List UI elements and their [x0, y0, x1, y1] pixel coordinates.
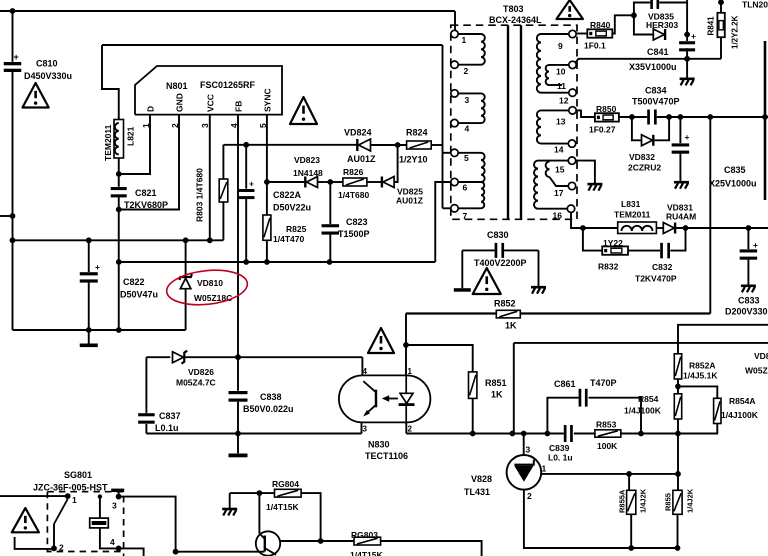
wire left rail lower — [12, 72, 14, 330]
svg-text:RG804: RG804 — [272, 479, 299, 489]
svg-text:3: 3 — [465, 95, 470, 105]
terminal pin 15 — [568, 157, 575, 164]
diode VD832 — [642, 135, 653, 146]
wire R852A-R854 — [677, 379, 679, 394]
node bus262 left — [116, 259, 122, 265]
capacitor C832 — [660, 243, 663, 259]
svg-text:9: 9 — [558, 41, 563, 51]
node edge line — [762, 114, 768, 120]
capacitor snubber top — [650, 0, 653, 9]
wire R803 top lead — [222, 145, 224, 179]
svg-text:TEM2011: TEM2011 — [103, 124, 113, 161]
wire L821 to C821 — [118, 158, 120, 187]
wire R825 to bus — [266, 240, 268, 262]
svg-text:+: + — [14, 52, 19, 62]
node C834 left — [629, 114, 635, 120]
svg-text:+: + — [691, 31, 696, 41]
capacitor C822A — [238, 189, 255, 192]
wire R841 bottom corner — [720, 37, 722, 59]
resistor R803 — [219, 179, 228, 202]
wire to R851 — [406, 345, 473, 372]
diode VD835 — [653, 29, 664, 40]
capacitor C821 — [111, 187, 127, 190]
wire VD831 right — [675, 227, 768, 229]
wire pin7 stub — [443, 207, 451, 209]
node VD825 branch — [395, 142, 401, 148]
wire rail x687 top — [686, 3, 688, 42]
svg-text:R825: R825 — [286, 224, 307, 234]
wire C839-R853 — [574, 433, 595, 435]
transformer core line 2 — [520, 25, 522, 219]
node base wire — [173, 549, 179, 555]
svg-text:VD823: VD823 — [294, 155, 320, 165]
terminal pin 5 — [451, 149, 458, 156]
svg-text:VD826: VD826 — [188, 367, 214, 377]
diode VD826 zener — [173, 352, 184, 363]
node coil pin3 wire — [98, 494, 102, 498]
diode VD823 — [304, 177, 306, 188]
node L821 bottom — [116, 171, 122, 177]
opto pin2 lead — [405, 422, 407, 433]
svg-text:2: 2 — [527, 491, 532, 501]
svg-text:T470P: T470P — [590, 378, 617, 388]
wire R854A top — [678, 386, 717, 398]
resistor R854 — [674, 394, 681, 419]
resistor R855 — [673, 490, 682, 514]
secondary winding 13-14 — [541, 109, 569, 111]
wire R852 bus — [406, 312, 497, 314]
svg-text:1/4J5.1K: 1/4J5.1K — [683, 371, 718, 381]
svg-text:1/4T15K: 1/4T15K — [266, 502, 299, 512]
wire pin4 FB long — [237, 115, 239, 358]
svg-text:3: 3 — [112, 501, 117, 511]
svg-text:T400V2200P: T400V2200P — [474, 258, 527, 268]
wire pin3 to base — [119, 497, 176, 552]
svg-text:T803: T803 — [503, 4, 524, 14]
wire RG804 right corner — [301, 493, 321, 541]
wire C821 down — [118, 197, 120, 330]
svg-text:C841: C841 — [647, 47, 669, 57]
svg-text:1Y22: 1Y22 — [603, 238, 623, 248]
transformer core line 1 — [507, 25, 509, 219]
terminal pin 14 — [568, 140, 575, 147]
wire SYNC to R825 — [266, 182, 268, 215]
svg-text:R852: R852 — [494, 299, 516, 309]
wire collector down — [258, 493, 260, 533]
wire R841 top — [720, 0, 722, 13]
fusible resistor R850 — [595, 113, 619, 121]
wire bus y59 — [576, 59, 721, 62]
wire pin3 VCC — [209, 115, 211, 241]
svg-text:1/4T470: 1/4T470 — [273, 234, 304, 244]
red circle annotation — [165, 267, 249, 309]
node SYNC VD823 tap — [264, 179, 270, 185]
svg-text:R824: R824 — [406, 128, 428, 138]
warning triangle 5 — [368, 328, 394, 353]
node bus330 — [116, 327, 122, 333]
svg-text:R841: R841 — [707, 16, 716, 36]
capacitor C830 — [462, 249, 494, 251]
relay coil — [90, 518, 109, 528]
opto LED — [405, 375, 407, 393]
svg-text:L0.1u: L0.1u — [155, 423, 179, 433]
node collector — [257, 490, 263, 496]
svg-text:D50V47u: D50V47u — [120, 290, 158, 300]
node rail-bus240 — [10, 237, 16, 243]
svg-text:13: 13 — [556, 117, 566, 127]
wire pin15 to ground — [576, 161, 595, 184]
svg-text:D50V22u: D50V22u — [273, 203, 311, 213]
primary winding 5-6 — [458, 152, 481, 154]
terminal pin 7 — [451, 205, 458, 212]
svg-text:4: 4 — [363, 367, 368, 376]
ground bar C830 — [454, 288, 471, 292]
svg-text:11: 11 — [557, 81, 566, 91]
relay switch blade — [54, 499, 68, 524]
svg-text:1: 1 — [462, 35, 467, 45]
warning triangle 6 — [12, 508, 39, 532]
svg-text:C834: C834 — [645, 86, 667, 96]
svg-text:D200V330u: D200V330u — [725, 307, 768, 317]
wire R832 to C832 — [628, 250, 660, 252]
wire drop to T803 pin1 — [454, 11, 456, 31]
warning triangle 3 — [557, 0, 583, 19]
wire R850 to C834 — [619, 116, 647, 118]
node R826 left — [327, 179, 333, 185]
svg-text:SG801: SG801 — [64, 470, 92, 480]
node C822 top — [86, 237, 92, 243]
wire corner to L821 — [102, 45, 119, 120]
svg-text:RU4AM: RU4AM — [666, 212, 696, 222]
wire C861 right branch — [589, 398, 641, 434]
svg-text:C832: C832 — [652, 262, 673, 272]
svg-text:C837: C837 — [159, 411, 181, 421]
svg-text:L821: L821 — [126, 126, 136, 146]
node VD835 anode — [631, 12, 637, 18]
svg-text:C830: C830 — [487, 230, 509, 240]
svg-text:FSC01265RF: FSC01265RF — [200, 80, 256, 90]
svg-text:M05Z4.7C: M05Z4.7C — [176, 378, 216, 388]
svg-text:100K: 100K — [597, 441, 618, 451]
capacitor C837 — [145, 357, 147, 413]
relay pin 4 — [116, 546, 122, 552]
wire R826 to VD825 — [367, 181, 382, 183]
svg-text:GND: GND — [175, 93, 185, 112]
wire node to RG803 — [321, 540, 354, 542]
wire fb bus — [473, 433, 564, 435]
wire pin2 to fb bus — [406, 433, 472, 435]
inductor L821 — [114, 120, 124, 159]
ground C841 — [680, 78, 695, 81]
fusible resistor R840 — [587, 29, 612, 37]
resistor R826 — [343, 178, 367, 186]
node C821 gnd — [116, 207, 122, 213]
svg-text:1: 1 — [542, 464, 547, 474]
node C841 bus59 — [684, 56, 690, 62]
resistor R855A — [627, 490, 636, 514]
ground C833 — [741, 284, 756, 287]
wire sense y324.8 — [678, 325, 768, 354]
resistor RG803 — [354, 537, 381, 545]
diode VD810 zener — [185, 240, 187, 277]
svg-text:4: 4 — [110, 537, 115, 547]
svg-text:1/2Y2.2K: 1/2Y2.2K — [731, 15, 740, 49]
svg-text:VD824: VD824 — [344, 128, 372, 138]
wire R852 to rail — [520, 312, 710, 314]
svg-text:2CZRU2: 2CZRU2 — [628, 163, 661, 173]
resistor RG804 — [275, 489, 302, 497]
capacitor C838 — [237, 357, 239, 391]
resistor R852A — [674, 354, 681, 379]
wire R855 leads — [677, 474, 679, 490]
svg-text:C838: C838 — [260, 392, 282, 402]
wire bus y262 — [119, 261, 436, 263]
svg-text:1/2Y10: 1/2Y10 — [399, 155, 428, 165]
wire TL431 anode — [524, 490, 678, 548]
node left rail top — [10, 8, 16, 14]
node C833 top — [746, 225, 752, 231]
svg-text:1/4T680: 1/4T680 — [338, 190, 369, 200]
svg-text:VD810: VD810 — [197, 278, 223, 288]
wire C861 branch — [547, 398, 578, 434]
resistor R852 — [496, 310, 520, 318]
svg-text:1F0.1: 1F0.1 — [584, 41, 606, 51]
svg-text:VCC: VCC — [206, 94, 216, 112]
svg-text:1: 1 — [72, 495, 77, 505]
wire VCC aux line y144.8 — [223, 144, 357, 146]
wire C830 left drop — [461, 250, 463, 288]
svg-text:T1500P: T1500P — [338, 229, 370, 239]
svg-text:R855: R855 — [664, 493, 673, 511]
node C861 left — [545, 431, 551, 437]
relay pin 3 — [116, 494, 122, 500]
wire relay pin1 feed — [0, 495, 68, 497]
wire pin4 down exit — [119, 548, 144, 556]
wire rail 25V — [709, 117, 711, 314]
svg-text:T2KV470P: T2KV470P — [635, 274, 677, 284]
svg-text:R853: R853 — [596, 420, 617, 430]
svg-text:1/4J2K: 1/4J2K — [686, 488, 695, 513]
node rail y216 — [10, 213, 16, 219]
wire R824 right — [431, 144, 442, 146]
transistor V8xx — [256, 531, 280, 555]
wire R854A bottom — [716, 424, 718, 434]
wire C834 right — [657, 116, 768, 118]
wire pin6 down to bus — [435, 182, 451, 262]
wire C830 right drop — [538, 250, 540, 287]
svg-text:12: 12 — [559, 96, 569, 106]
node rail25 top — [707, 114, 713, 120]
capacitor C834 — [647, 110, 650, 125]
svg-text:1/4J100K: 1/4J100K — [624, 406, 662, 416]
node C861 right — [638, 431, 644, 437]
node R855A bottom — [628, 545, 634, 551]
wire R851 bottom — [472, 398, 474, 433]
primary winding 1-2 — [458, 33, 481, 35]
svg-text:15: 15 — [555, 165, 565, 175]
svg-text:R855A: R855A — [618, 489, 627, 513]
svg-text:L831: L831 — [621, 199, 641, 209]
svg-text:3: 3 — [526, 445, 531, 455]
capacitor C833 — [747, 228, 749, 249]
svg-text:N801: N801 — [166, 81, 188, 91]
wire VD823 row — [267, 181, 305, 183]
svg-text:TECT1106: TECT1106 — [365, 451, 408, 461]
node RG803 left — [318, 538, 324, 544]
svg-text:B50V0.022u: B50V0.022u — [243, 404, 294, 414]
svg-text:R840: R840 — [590, 20, 611, 30]
wire C822A — [245, 145, 247, 189]
svg-text:C821: C821 — [135, 188, 157, 198]
svg-text:VD8: VD8 — [754, 351, 768, 361]
ground C830 right — [531, 286, 546, 289]
wire snubber cap right — [659, 0, 687, 3]
wire R854 to ref bus — [677, 434, 679, 474]
node VD835 cathode rail — [684, 32, 690, 38]
svg-text:+: + — [753, 240, 758, 250]
svg-text:R854A: R854A — [729, 396, 755, 406]
node C822A top — [243, 142, 249, 148]
wire coil top — [99, 497, 101, 518]
svg-text:TLN20: TLN20 — [742, 0, 768, 10]
warning triangle 2 — [290, 97, 317, 124]
svg-text:D: D — [146, 106, 156, 112]
terminal pin 3 — [451, 90, 458, 97]
svg-text:C861: C861 — [554, 379, 576, 389]
capacitor C861 — [579, 389, 582, 407]
wire VD835 anode lead — [634, 15, 654, 34]
svg-text:R850: R850 — [596, 104, 617, 114]
svg-text:1: 1 — [408, 367, 413, 376]
svg-text:HER303: HER303 — [646, 20, 678, 30]
wire primary left vertical — [442, 45, 444, 208]
ground C835 — [674, 181, 689, 184]
warning triangle 4 — [473, 268, 501, 294]
terminal pin 10 — [569, 61, 576, 68]
secondary winding 10-11 inner — [549, 64, 569, 66]
node R855A top — [626, 471, 632, 477]
wire sense link vertical — [513, 343, 515, 434]
wire VD826 to opto pin4 — [186, 356, 363, 358]
wire pin2 GND — [119, 115, 179, 210]
wire pin1 D to L821 — [119, 115, 150, 174]
wire VD825 up to node — [394, 145, 398, 182]
svg-text:C823: C823 — [346, 217, 368, 227]
svg-text:3: 3 — [200, 123, 210, 128]
resistor R825 — [263, 215, 271, 240]
wire R803 bottom lead — [222, 202, 224, 240]
resistor R824 — [407, 141, 432, 149]
node sense link — [510, 431, 516, 437]
wire C832 up to node — [670, 228, 685, 251]
svg-text:1K: 1K — [505, 321, 517, 331]
svg-text:TL431: TL431 — [464, 487, 490, 497]
node R841 top — [718, 0, 724, 5]
svg-text:16: 16 — [553, 211, 563, 221]
svg-text:+: + — [685, 132, 690, 142]
svg-text:C835: C835 — [724, 165, 746, 175]
svg-text:R852A: R852A — [689, 361, 715, 371]
wire pin2 left corner — [15, 537, 54, 549]
wire C822A down — [245, 198, 247, 262]
node C822A bus — [243, 259, 249, 265]
opto pin3 lead — [361, 422, 363, 433]
wire pin9 to R840 — [576, 33, 587, 35]
terminal pin 17 — [568, 182, 575, 189]
svg-text:1K: 1K — [491, 390, 503, 400]
wire R832 branch down — [583, 228, 602, 251]
node R852A bottom — [675, 384, 681, 390]
capacitor C823 — [329, 182, 331, 224]
wire left rail upper — [12, 11, 14, 62]
node C823 bus — [327, 259, 333, 265]
svg-text:TEM2011: TEM2011 — [614, 210, 651, 220]
diode VD824 — [356, 139, 358, 151]
svg-text:FB: FB — [234, 101, 244, 112]
svg-text:+: + — [95, 262, 100, 272]
svg-text:4: 4 — [465, 124, 470, 134]
inductor L831 — [618, 222, 657, 234]
svg-text:3: 3 — [363, 425, 368, 434]
svg-text:L0. 1u: L0. 1u — [548, 453, 573, 463]
node C838 bus — [235, 431, 241, 437]
wire bottom bus left — [146, 433, 361, 435]
terminal pin 4 — [451, 119, 458, 126]
node C822 bus330 — [86, 327, 92, 333]
wire L831 to VD831 — [656, 227, 663, 229]
svg-text:X25V1000u: X25V1000u — [709, 179, 757, 189]
ground bar under bus330 — [88, 330, 90, 344]
wire base — [176, 551, 265, 553]
wire VD823 to node — [318, 181, 331, 183]
svg-text:R851: R851 — [485, 378, 507, 388]
warning triangle 1 — [23, 83, 49, 108]
ground RG804 — [222, 508, 237, 511]
relay pin 1 — [65, 493, 71, 499]
node VD831 out — [683, 225, 689, 231]
capacitor C841 — [679, 41, 695, 44]
terminal pin 13 — [569, 107, 576, 114]
wire RG803 right exit — [381, 541, 482, 556]
secondary winding 17 inner — [546, 162, 550, 178]
wire pin5 stub — [443, 152, 451, 154]
svg-text:C839: C839 — [549, 443, 570, 453]
primary winding 6-7 — [481, 182, 484, 208]
svg-text:X35V1000u: X35V1000u — [629, 62, 677, 72]
svg-text:R832: R832 — [598, 262, 619, 272]
terminal pin 2 — [451, 61, 458, 68]
svg-text:1/4J100K: 1/4J100K — [721, 410, 759, 420]
opto pin4 lead — [361, 357, 363, 375]
node C835 top — [678, 114, 684, 120]
svg-text:D450V330u: D450V330u — [24, 71, 72, 81]
resistor R853 — [595, 430, 621, 437]
wire TL431 ref — [541, 473, 678, 475]
svg-text:6: 6 — [463, 183, 468, 193]
capacitor C822 — [88, 240, 90, 272]
svg-text:N830: N830 — [368, 440, 390, 450]
wire VD832 bypass left — [632, 117, 642, 140]
svg-text:AU01Z: AU01Z — [396, 196, 423, 206]
node TL431 cathode — [521, 431, 527, 437]
opto light arrow — [386, 398, 398, 400]
node FB C838 — [235, 354, 241, 360]
node R855 bottom — [675, 545, 681, 551]
svg-text:2: 2 — [59, 543, 64, 553]
capacitor C810 — [4, 62, 22, 65]
svg-text:5: 5 — [464, 153, 469, 163]
fusible resistor R832 — [602, 246, 628, 254]
